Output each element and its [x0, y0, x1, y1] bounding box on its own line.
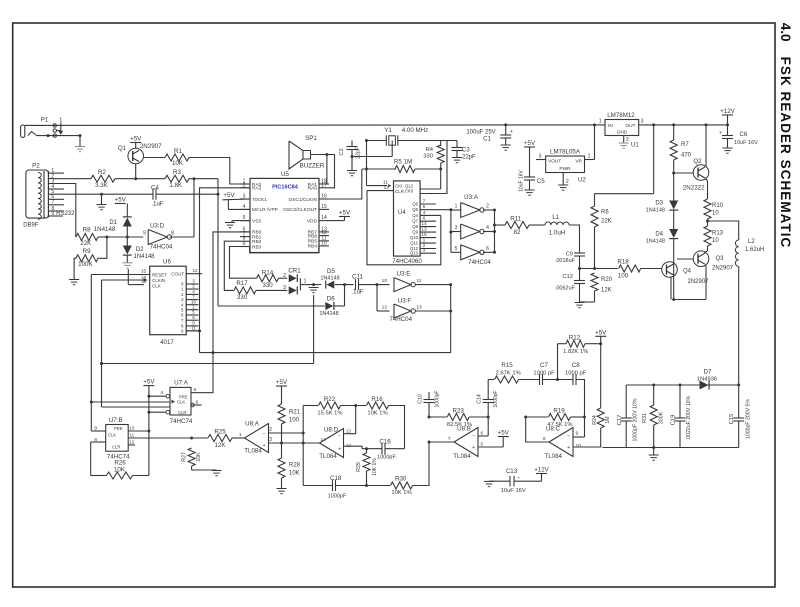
svg-text:CLR: CLR	[395, 189, 405, 194]
svg-text:Q4: Q4	[412, 213, 418, 218]
svg-text:5: 5	[194, 387, 197, 393]
svg-text:4: 4	[423, 210, 426, 216]
svg-text:RS232: RS232	[56, 211, 75, 217]
svg-text:C13: C13	[506, 468, 518, 475]
svg-text:LM78M12: LM78M12	[607, 112, 635, 119]
svg-text:Q2: Q2	[693, 158, 702, 165]
svg-text:1000pF: 1000pF	[377, 455, 396, 461]
svg-text:4.0: 4.0	[778, 23, 793, 42]
svg-text:RB4: RB4	[308, 244, 318, 250]
svg-text:2: 2	[283, 273, 286, 279]
svg-text:1N4148: 1N4148	[320, 276, 339, 282]
svg-text:R15: R15	[501, 362, 513, 369]
svg-text:P2: P2	[32, 163, 40, 170]
svg-text:1.82K 1%: 1.82K 1%	[563, 349, 588, 355]
svg-text:15: 15	[421, 232, 427, 238]
svg-text:2.67K 1%: 2.67K 1%	[496, 371, 521, 377]
svg-text:22K: 22K	[80, 240, 92, 247]
svg-text:PIC16C84: PIC16C84	[272, 184, 299, 190]
svg-text:U1: U1	[631, 143, 639, 149]
svg-text:22pF: 22pF	[356, 147, 362, 159]
svg-text:CLKIN: CLKIN	[152, 278, 165, 283]
svg-text:1N4936: 1N4936	[697, 377, 717, 383]
svg-text:10: 10	[712, 238, 719, 244]
svg-text:R19: R19	[553, 408, 565, 415]
svg-text:15: 15	[141, 269, 147, 274]
svg-text:TL084: TL084	[319, 453, 337, 460]
svg-text:10K: 10K	[289, 471, 300, 477]
svg-text:15: 15	[321, 204, 327, 210]
svg-text:4: 4	[243, 204, 246, 210]
svg-text:+12V: +12V	[534, 467, 549, 474]
svg-text:+12V: +12V	[720, 108, 735, 115]
svg-text:3: 3	[243, 194, 246, 200]
svg-text:CLK: CLK	[108, 433, 116, 438]
svg-text:74HC04: 74HC04	[389, 316, 412, 323]
svg-text:R7: R7	[681, 142, 689, 148]
svg-text:14: 14	[321, 215, 327, 221]
svg-text:6: 6	[192, 315, 195, 320]
svg-text:1: 1	[588, 154, 591, 160]
svg-text:U7:B: U7:B	[109, 417, 123, 424]
svg-text:8: 8	[543, 436, 546, 442]
svg-text:12: 12	[384, 185, 390, 191]
svg-text:VSS: VSS	[252, 218, 262, 224]
svg-text:R5 1M: R5 1M	[394, 159, 412, 166]
svg-text:P1: P1	[41, 117, 49, 124]
svg-text:11: 11	[191, 326, 196, 331]
svg-text:VDD: VDD	[307, 218, 318, 224]
svg-text:−: −	[338, 434, 341, 440]
svg-text:R13: R13	[712, 231, 724, 237]
svg-text:6: 6	[196, 400, 199, 406]
svg-text:5: 5	[243, 215, 246, 221]
svg-text:OSC2/CLKOUT: OSC2/CLKOUT	[283, 207, 317, 213]
svg-text:3: 3	[269, 437, 272, 443]
svg-text:Q13: Q13	[410, 251, 419, 256]
svg-text:7: 7	[448, 436, 451, 442]
svg-text:D6: D6	[327, 296, 335, 303]
svg-text:U8:D: U8:D	[324, 427, 339, 434]
svg-text:COUT: COUT	[171, 272, 184, 277]
svg-text:.0022uF 200V 10%: .0022uF 200V 10%	[686, 395, 692, 440]
svg-text:U3:F: U3:F	[398, 298, 412, 305]
svg-text:IN: IN	[608, 123, 613, 129]
svg-text:CLR: CLR	[178, 410, 186, 415]
svg-text:12: 12	[129, 439, 135, 444]
svg-text:1N4148: 1N4148	[319, 311, 338, 317]
svg-text:6: 6	[481, 431, 484, 437]
svg-text:1000 pF: 1000 pF	[533, 371, 555, 377]
svg-text:1000 pF: 1000 pF	[565, 371, 587, 377]
svg-text:R27: R27	[182, 452, 188, 462]
svg-text:OUT: OUT	[625, 123, 635, 129]
svg-text:10K 1%: 10K 1%	[367, 411, 387, 417]
svg-text:C4: C4	[151, 185, 159, 192]
svg-text:U6: U6	[163, 259, 171, 266]
svg-text:1: 1	[239, 432, 242, 438]
svg-text:13: 13	[421, 227, 427, 233]
svg-text:C16: C16	[379, 439, 391, 446]
svg-text:10: 10	[712, 211, 719, 217]
svg-text:R12: R12	[569, 335, 581, 342]
svg-text:RB6: RB6	[308, 233, 318, 239]
svg-text:C11: C11	[352, 274, 363, 281]
svg-text:+5V: +5V	[276, 379, 288, 386]
svg-text:U2: U2	[578, 178, 586, 184]
svg-text:+5V: +5V	[524, 140, 536, 147]
svg-text:FSK READER SCHEMATIC: FSK READER SCHEMATIC	[778, 57, 793, 249]
svg-text:R6: R6	[601, 210, 609, 216]
svg-text:3: 3	[641, 119, 644, 125]
svg-text:R18: R18	[617, 259, 629, 266]
svg-text:2N2222: 2N2222	[683, 185, 705, 192]
svg-text:10: 10	[129, 425, 135, 430]
svg-text:13: 13	[416, 305, 422, 311]
svg-text:D4: D4	[655, 232, 663, 238]
svg-text:Y1: Y1	[384, 127, 392, 134]
svg-text:.0062uF: .0062uF	[555, 286, 576, 292]
svg-text:RA3: RA3	[252, 186, 262, 192]
svg-text:1: 1	[423, 238, 426, 244]
svg-text:+5V: +5V	[223, 192, 235, 199]
svg-text:22K: 22K	[601, 219, 612, 225]
svg-text:+: +	[510, 129, 513, 135]
svg-text:1: 1	[181, 287, 184, 292]
svg-text:Q8: Q8	[412, 224, 418, 229]
svg-text:C12: C12	[562, 274, 573, 280]
svg-text:.0018uF: .0018uF	[555, 258, 576, 264]
svg-text:22pF: 22pF	[462, 155, 476, 161]
svg-text:+: +	[472, 445, 475, 451]
svg-text:T0CK1: T0CK1	[252, 197, 267, 203]
svg-text:C15: C15	[729, 414, 735, 425]
svg-text:1.0uH: 1.0uH	[549, 230, 566, 237]
svg-text:10: 10	[321, 240, 327, 246]
svg-text:13: 13	[346, 429, 352, 434]
svg-text:R9: R9	[83, 248, 91, 255]
svg-text:1N4148: 1N4148	[134, 254, 156, 260]
svg-text:D5: D5	[327, 268, 335, 275]
svg-text:Q10: Q10	[410, 235, 419, 240]
svg-text:R4: R4	[426, 147, 434, 153]
svg-text:3: 3	[455, 225, 458, 231]
svg-text:+5V: +5V	[115, 197, 127, 204]
svg-text:4: 4	[486, 225, 489, 231]
svg-text:U3:D: U3:D	[150, 223, 165, 230]
svg-text:10: 10	[576, 443, 582, 449]
svg-text:R31: R31	[642, 413, 648, 423]
svg-text:R24: R24	[592, 415, 598, 425]
svg-text:C19: C19	[671, 415, 677, 426]
svg-text:10uF 16V: 10uF 16V	[734, 140, 758, 146]
svg-text:6: 6	[423, 216, 426, 222]
svg-text:+5V: +5V	[595, 329, 607, 336]
svg-text:BUZZER: BUZZER	[300, 163, 325, 170]
svg-text:4.00 MHz: 4.00 MHz	[402, 127, 428, 134]
svg-text:SP1: SP1	[305, 135, 317, 142]
svg-text:470: 470	[681, 153, 692, 159]
svg-text:3: 3	[539, 154, 542, 160]
svg-text:2: 2	[486, 204, 489, 210]
svg-text:R30: R30	[395, 476, 407, 483]
svg-text:R11: R11	[510, 216, 521, 223]
svg-text:10K 1%: 10K 1%	[391, 490, 411, 496]
svg-text:−: −	[567, 434, 570, 440]
svg-text:10uF 16V: 10uF 16V	[519, 169, 525, 191]
svg-text:9: 9	[94, 426, 97, 432]
svg-text:Q5: Q5	[412, 207, 418, 212]
svg-text:6: 6	[486, 246, 489, 252]
svg-text:TL084: TL084	[244, 448, 262, 455]
svg-text:1000pF: 1000pF	[435, 391, 441, 408]
svg-text:RB2: RB2	[252, 239, 262, 245]
svg-text:330: 330	[262, 282, 273, 289]
svg-text:10: 10	[382, 278, 388, 284]
svg-text:Q11: Q11	[410, 241, 418, 246]
svg-text:2: 2	[566, 179, 569, 185]
svg-text:CLK: CLK	[152, 283, 161, 288]
svg-text:R2: R2	[98, 169, 106, 176]
svg-text:−: −	[263, 432, 266, 438]
svg-text:R23: R23	[453, 408, 465, 415]
svg-text:U7:A: U7:A	[174, 380, 189, 387]
svg-text:C17: C17	[617, 415, 623, 426]
svg-text:+5V: +5V	[130, 136, 142, 143]
svg-text:7: 7	[181, 318, 184, 323]
svg-text:CKI: CKI	[395, 184, 403, 189]
svg-text:5: 5	[455, 246, 458, 252]
svg-text:9: 9	[143, 231, 146, 237]
svg-text:R16: R16	[371, 396, 383, 403]
svg-text:Q12: Q12	[405, 183, 414, 188]
svg-text:74HC74: 74HC74	[170, 418, 193, 425]
svg-text:5: 5	[481, 441, 484, 447]
svg-text:U5: U5	[281, 171, 289, 178]
svg-text:8: 8	[171, 231, 174, 237]
svg-text:OSC1/CLKIN: OSC1/CLKIN	[288, 197, 317, 203]
svg-text:4: 4	[160, 390, 163, 396]
svg-text:C14: C14	[476, 394, 482, 404]
svg-text:Q7: Q7	[412, 219, 418, 224]
svg-text:R28: R28	[289, 463, 301, 469]
svg-text:12K: 12K	[214, 442, 226, 449]
svg-text:10K: 10K	[196, 452, 202, 462]
svg-text:MCLR /VPP: MCLR /VPP	[252, 207, 278, 213]
svg-text:14: 14	[321, 437, 327, 443]
svg-text:9: 9	[181, 329, 184, 334]
svg-text:1000pF 200V 10%: 1000pF 200V 10%	[633, 398, 639, 441]
svg-text:1: 1	[599, 119, 602, 125]
svg-text:Q9: Q9	[412, 230, 418, 235]
svg-text:7: 7	[51, 200, 54, 206]
svg-text:2: 2	[626, 137, 629, 143]
svg-text:1: 1	[304, 279, 307, 285]
svg-text:4017: 4017	[160, 339, 174, 346]
svg-text:330: 330	[423, 154, 433, 160]
svg-text:13: 13	[141, 279, 147, 284]
svg-text:+5V: +5V	[339, 210, 351, 217]
svg-text:1000pF: 1000pF	[328, 494, 347, 500]
svg-text:U8:B: U8:B	[457, 426, 471, 433]
svg-text:1.62uH: 1.62uH	[745, 247, 764, 253]
svg-text:DB9F: DB9F	[23, 223, 39, 229]
svg-text:PRE: PRE	[114, 426, 123, 431]
svg-text:+5V: +5V	[143, 379, 155, 386]
svg-text:LM78L05A: LM78L05A	[550, 149, 581, 156]
svg-text:CLK: CLK	[177, 400, 185, 405]
svg-text:+: +	[518, 475, 521, 480]
svg-text:Q3: Q3	[716, 256, 725, 262]
svg-text:11: 11	[383, 179, 388, 185]
svg-text:+: +	[567, 445, 570, 451]
svg-text:R21: R21	[289, 410, 301, 416]
svg-text:L2: L2	[748, 239, 755, 245]
svg-text:5: 5	[423, 204, 426, 210]
svg-text:D7: D7	[704, 369, 712, 376]
svg-text:VR: VR	[575, 159, 582, 165]
svg-text:300K: 300K	[659, 411, 665, 424]
svg-text:2N2907: 2N2907	[140, 143, 162, 150]
svg-text:+: +	[719, 130, 722, 136]
svg-text:TL084: TL084	[453, 453, 471, 460]
svg-text:−: −	[472, 434, 475, 440]
svg-text:82: 82	[514, 229, 521, 236]
svg-text:R22: R22	[324, 396, 336, 403]
svg-text:D2: D2	[136, 247, 144, 253]
svg-text:1N4148: 1N4148	[94, 226, 116, 233]
svg-text:C10: C10	[417, 394, 423, 404]
svg-text:D3: D3	[655, 201, 663, 207]
svg-text:74HC04: 74HC04	[150, 244, 173, 251]
svg-text:RB3: RB3	[252, 244, 262, 250]
svg-text:C9: C9	[566, 252, 573, 258]
svg-text:GND: GND	[617, 130, 628, 136]
svg-text:PWR: PWR	[559, 166, 571, 172]
svg-text:C3: C3	[462, 148, 470, 154]
svg-text:R10: R10	[712, 203, 724, 209]
svg-text:C5: C5	[537, 179, 545, 185]
svg-text:9: 9	[51, 211, 54, 217]
svg-text:3: 3	[283, 285, 286, 291]
svg-text:U8:A: U8:A	[245, 421, 260, 428]
svg-text:330: 330	[237, 294, 248, 301]
svg-text:15.5K 1%: 15.5K 1%	[317, 411, 342, 417]
svg-text:R8: R8	[83, 227, 91, 234]
svg-text:10K 1%: 10K 1%	[372, 458, 378, 476]
svg-text:1N4148: 1N4148	[646, 208, 665, 214]
svg-text:CK0: CK0	[405, 189, 414, 194]
svg-text:RA0: RA0	[308, 186, 318, 192]
svg-text:C2: C2	[339, 148, 345, 155]
svg-text:.1uF: .1uF	[351, 289, 364, 296]
svg-text:11: 11	[129, 432, 134, 437]
svg-text:C8: C8	[572, 362, 580, 369]
svg-text:1.8K: 1.8K	[169, 182, 183, 189]
svg-text:+: +	[338, 447, 341, 453]
svg-text:R3: R3	[173, 169, 181, 176]
svg-text:R25: R25	[214, 429, 226, 436]
svg-text:U3:E: U3:E	[397, 271, 411, 278]
svg-text:5: 5	[181, 307, 184, 312]
svg-text:100uF 25V: 100uF 25V	[466, 130, 495, 136]
svg-text:1000pF: 1000pF	[493, 391, 499, 408]
svg-text:C7: C7	[540, 362, 548, 369]
svg-text:2: 2	[269, 427, 272, 433]
svg-text:12: 12	[346, 443, 352, 448]
svg-text:9: 9	[576, 431, 579, 437]
svg-text:Q6: Q6	[412, 202, 418, 207]
svg-text:+5V: +5V	[498, 430, 510, 437]
svg-text:Q4: Q4	[683, 269, 692, 275]
svg-text:.1uF: .1uF	[151, 201, 164, 208]
svg-text:1: 1	[455, 204, 458, 210]
svg-text:Q1: Q1	[118, 145, 127, 152]
svg-text:C1: C1	[483, 137, 491, 143]
svg-text:10uF 16V: 10uF 16V	[501, 488, 526, 494]
svg-text:U8:C: U8:C	[546, 426, 561, 433]
svg-text:10K: 10K	[172, 160, 184, 167]
svg-text:7: 7	[423, 199, 426, 205]
svg-text:100: 100	[289, 418, 300, 424]
svg-text:VOUT: VOUT	[548, 159, 561, 165]
svg-text:R17: R17	[236, 280, 248, 287]
svg-text:100K: 100K	[78, 261, 93, 268]
svg-text:+: +	[263, 443, 266, 449]
svg-text:10K: 10K	[114, 467, 126, 474]
svg-text:9: 9	[243, 241, 246, 247]
svg-text:11: 11	[417, 278, 422, 284]
svg-text:1000pF 200V 5%: 1000pF 200V 5%	[746, 399, 752, 439]
svg-text:12: 12	[382, 305, 388, 311]
svg-text:74HC4060: 74HC4060	[392, 258, 422, 265]
svg-text:14: 14	[421, 221, 427, 227]
svg-text:RESET: RESET	[152, 273, 167, 278]
svg-text:1N4148: 1N4148	[646, 239, 665, 245]
svg-text:100: 100	[618, 273, 629, 280]
svg-text:12K: 12K	[601, 288, 612, 294]
svg-text:12: 12	[192, 268, 198, 273]
svg-text:3.3K: 3.3K	[95, 182, 109, 189]
svg-text:74HC04: 74HC04	[468, 259, 491, 266]
svg-text:C18: C18	[330, 475, 342, 482]
svg-text:R20: R20	[601, 277, 613, 283]
svg-text:R14: R14	[262, 269, 274, 276]
svg-text:C6: C6	[740, 132, 748, 138]
svg-text:CLR: CLR	[112, 445, 120, 450]
svg-text:1: 1	[59, 117, 62, 123]
svg-text:TL084: TL084	[544, 453, 562, 460]
svg-text:U4: U4	[398, 210, 406, 216]
svg-text:U3:A: U3:A	[464, 194, 479, 201]
svg-text:R1: R1	[174, 148, 182, 155]
svg-text:L1: L1	[552, 214, 559, 221]
svg-text:17: 17	[321, 182, 327, 188]
svg-text:R29: R29	[356, 462, 362, 472]
svg-text:CR1: CR1	[288, 268, 301, 275]
svg-text:R26: R26	[114, 459, 126, 466]
svg-text:1M: 1M	[605, 416, 611, 423]
svg-text:2N2907: 2N2907	[712, 266, 734, 272]
svg-text:3: 3	[423, 248, 426, 254]
